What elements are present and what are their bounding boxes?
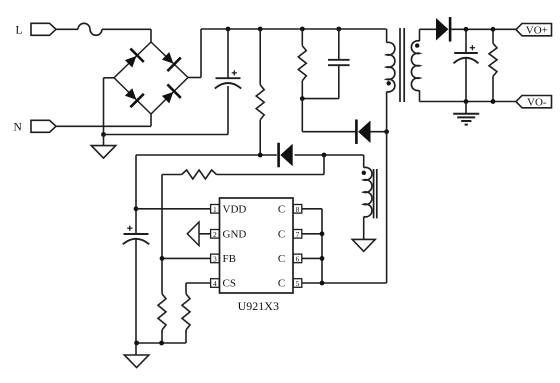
node VDD-aux junction	[322, 153, 327, 158]
svg-text:GND: GND	[223, 229, 247, 241]
node snubber bottom junction	[300, 96, 305, 101]
wire pin6	[302, 257, 322, 259]
node pin7 junction	[320, 231, 325, 236]
wire ground node to bulk cap bottom	[104, 86, 229, 135]
IC U1 body	[220, 198, 294, 293]
capacitor C3 output	[454, 29, 479, 101]
wire aux node down to FB resistor	[217, 155, 325, 175]
wire pin5	[302, 282, 322, 284]
svg-text:C: C	[278, 278, 285, 290]
node VDD pin junction	[134, 206, 139, 211]
wire diode to aux node	[295, 154, 364, 156]
bridge diode D3 bottom-left	[125, 88, 144, 107]
capacitor C2 snubber	[328, 29, 350, 99]
wire pin7	[302, 233, 322, 235]
wire pin8	[302, 209, 322, 283]
diode D6 output rectifier	[436, 17, 451, 42]
aux phase dot	[362, 171, 366, 175]
wire bottom rail	[136, 342, 186, 344]
capacitor C4 VDD	[123, 226, 149, 343]
pin label GND	[223, 229, 247, 241]
bridge diode D2 top-right	[162, 52, 181, 71]
pin 2 box	[211, 230, 220, 239]
resistor R3 output load	[489, 29, 497, 101]
wire aux node to winding	[363, 155, 365, 168]
pin 8 box	[293, 205, 302, 214]
pin 5 box	[293, 279, 302, 288]
wire bridge right corner up	[188, 29, 201, 78]
svg-text:N: N	[14, 122, 23, 134]
transformer primary winding	[387, 29, 395, 132]
pin 3 box	[211, 254, 220, 263]
svg-text:1: 1	[213, 205, 217, 214]
pin label C7	[278, 229, 285, 241]
pin 7 box	[293, 230, 302, 239]
wire pin2 GND	[199, 233, 211, 235]
fuse F1	[78, 23, 102, 35]
wire output bottom rail	[420, 101, 517, 103]
diode D5 clamp	[355, 119, 370, 144]
bridge diode D1 top-left	[125, 49, 144, 68]
svg-text:3: 3	[213, 255, 217, 264]
node bottom rail mid	[159, 341, 164, 346]
pin label CS	[223, 278, 236, 290]
bridge diode D4 bottom-right	[162, 84, 181, 103]
wire secondary top to diode	[420, 28, 437, 30]
svg-text:C: C	[278, 229, 285, 241]
bridge diamond wires	[114, 42, 188, 114]
wire pin3 FB	[162, 257, 211, 259]
node pin5 junction	[320, 281, 325, 286]
node output cap top	[464, 27, 469, 32]
wire bridge left corner down	[104, 78, 115, 135]
resistor R6 current sense	[182, 294, 190, 343]
diode D7 VDD rectifier	[277, 143, 292, 168]
ground G4 main	[124, 343, 149, 368]
node output resistor bottom	[491, 99, 496, 104]
ground arrow G2 at GND pin	[187, 222, 199, 246]
node snubber resistor top	[300, 27, 305, 32]
wire top rail	[201, 28, 387, 30]
ground G1	[91, 135, 116, 159]
terminal N	[14, 120, 57, 133]
pin 1 box	[211, 205, 220, 214]
transformer secondary winding	[411, 29, 419, 101]
svg-text:CS: CS	[223, 278, 236, 290]
wire pin4 CS	[186, 283, 211, 294]
svg-text:FB: FB	[223, 253, 236, 265]
svg-text:4: 4	[213, 279, 217, 288]
pin 6 box	[293, 254, 302, 263]
terminal L	[16, 23, 57, 36]
aux winding	[364, 167, 372, 239]
wire clamp diode to primary	[371, 131, 387, 133]
svg-text:VDD: VDD	[223, 204, 247, 216]
resistor R5 feedback lower	[158, 258, 166, 343]
pin label VDD	[223, 204, 247, 216]
svg-text:8: 8	[296, 205, 300, 214]
node output cap bottom	[464, 99, 469, 104]
node output resistor top	[491, 27, 496, 32]
wire L to fuse	[56, 28, 78, 30]
capacitor C1 bulk	[215, 29, 241, 89]
pin label C6	[278, 253, 285, 265]
IC label	[238, 299, 279, 313]
svg-text:L: L	[16, 24, 23, 36]
wire diode to VO+	[451, 28, 516, 30]
wire snubber to clamp diode	[302, 99, 355, 132]
terminal VO-	[516, 96, 552, 109]
resistor R4 feedback upper	[162, 170, 217, 258]
wire fuse to bridge top	[102, 29, 151, 42]
wire VDD rail	[136, 154, 277, 156]
wire primary bottom to drain bus	[322, 132, 387, 283]
svg-text:C: C	[278, 253, 285, 265]
pin 4 box	[211, 279, 220, 288]
node bulk cap top	[226, 27, 231, 32]
terminal VO+	[516, 24, 552, 37]
pin label C5	[278, 278, 285, 290]
wire N to bridge bottom	[56, 114, 151, 126]
primary phase dot	[387, 81, 391, 85]
transformer core	[400, 28, 404, 102]
svg-text:U921X3: U921X3	[238, 299, 279, 313]
node snubber cap top	[336, 27, 341, 32]
node FB junction	[160, 256, 165, 261]
svg-text:2: 2	[213, 230, 217, 239]
svg-text:C: C	[278, 204, 285, 216]
svg-text:6: 6	[296, 255, 300, 264]
aux core	[374, 169, 377, 218]
svg-text:VO+: VO+	[526, 24, 548, 36]
node R1 bottom junction	[258, 153, 263, 158]
wire pin1 VDD	[136, 208, 211, 210]
pin label FB	[223, 253, 236, 265]
node pin6 junction	[320, 256, 325, 261]
wire VDD corner down	[135, 155, 137, 234]
ground G3 aux	[352, 239, 375, 251]
node primary ground junction	[101, 132, 106, 137]
resistor R1 startup	[256, 29, 264, 155]
node bottom rail left	[134, 341, 139, 346]
secondary phase dot	[415, 43, 419, 47]
wire snubber bottom	[302, 98, 339, 100]
svg-text:5: 5	[296, 279, 300, 288]
node startup resistor top	[258, 27, 263, 32]
svg-text:VO-: VO-	[527, 96, 547, 108]
earth ground	[453, 102, 479, 125]
resistor R2 snubber	[298, 29, 306, 99]
svg-text:7: 7	[296, 230, 300, 239]
node clamp-primary junction	[384, 129, 389, 134]
pin label C8	[278, 204, 285, 216]
